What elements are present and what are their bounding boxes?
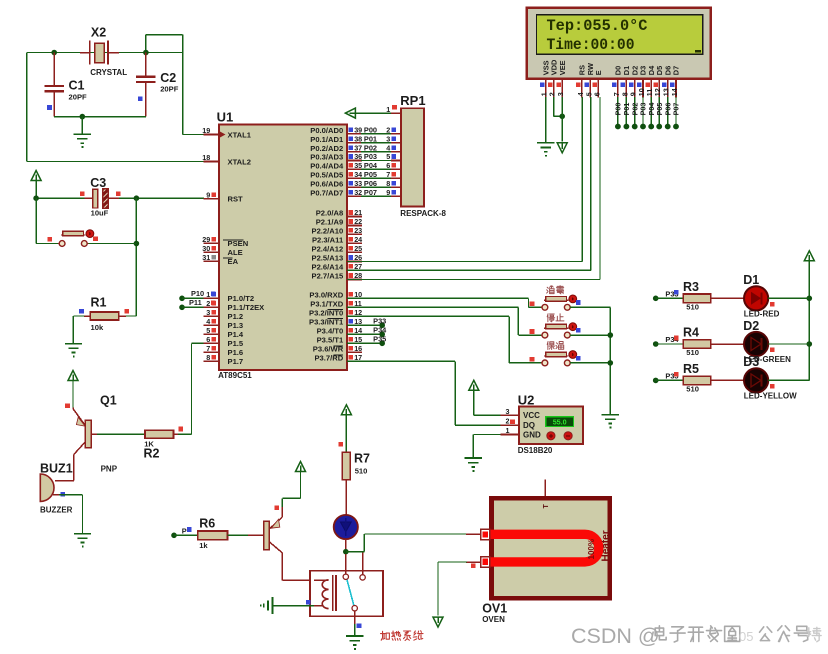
svg-text:Heater: Heater: [601, 530, 612, 561]
wire R4 to LED D2: [711, 343, 744, 345]
wire gnd stub: [81, 117, 83, 135]
oven terminal lower: [481, 557, 490, 567]
svg-text:P2.6/A14: P2.6/A14: [312, 263, 344, 272]
svg-text:D2: D2: [743, 319, 759, 333]
svg-text:31: 31: [202, 253, 210, 262]
svg-text:D7: D7: [672, 66, 681, 75]
LCD pin numbers 1-14 (rotated): [540, 88, 679, 96]
svg-text:DQ: DQ: [523, 421, 535, 430]
svg-text:LED-YELLOW: LED-YELLOW: [744, 392, 797, 401]
svg-text:GND: GND: [523, 431, 541, 440]
svg-text:25: 25: [354, 244, 362, 253]
LCD cursor: [695, 50, 701, 53]
svg-text:P06: P06: [364, 179, 377, 188]
svg-text:P: P: [182, 527, 187, 536]
relay moving contact (cyan): [347, 580, 354, 605]
svg-text:P03: P03: [364, 152, 377, 161]
svg-text:P1.4: P1.4: [228, 330, 244, 339]
relay NO contact: [362, 553, 364, 575]
svg-text:510: 510: [686, 384, 699, 393]
U2 temperature display: [546, 417, 574, 427]
svg-text:P3.1/TXD: P3.1/TXD: [310, 300, 343, 309]
svg-text:P3.5/T1: P3.5/T1: [317, 336, 344, 345]
node P33 terminal: [379, 323, 385, 329]
svg-text:P2.0/A8: P2.0/A8: [316, 209, 343, 218]
wire relay node to oven top terminal: [346, 551, 365, 553]
svg-text:BUZ1: BUZ1: [40, 462, 73, 476]
wire net P32 (U1 to button 3): [347, 315, 509, 317]
U1 pin XTAL1 clock arrow: [220, 131, 226, 138]
node LED bus D1 junction: [807, 296, 813, 302]
power arrow (RST pull-up): [31, 171, 41, 181]
transistor Q2 (relay driver): [281, 507, 283, 517]
LCD pin stubs: [546, 79, 676, 98]
wire net P30 (U1 to button 1): [347, 297, 529, 299]
svg-text:22: 22: [354, 217, 362, 226]
svg-text:24: 24: [354, 235, 362, 244]
node lamp-relay junction: [343, 549, 349, 555]
RP1 pin stubs: [391, 113, 401, 196]
svg-text:R4: R4: [683, 326, 699, 340]
RP1 side selection squares: [392, 128, 397, 195]
node P34 terminal (LED row 2): [653, 341, 659, 347]
selection square BUZ1: [61, 492, 66, 497]
node P35 terminal: [379, 341, 385, 347]
selection square R7: [339, 442, 344, 447]
selection square P11: [211, 301, 216, 306]
node RST-C3 junction: [134, 195, 140, 201]
selection square relay bottom: [357, 624, 362, 629]
wire net RST horizontal: [36, 197, 85, 199]
node P11 terminal: [179, 305, 185, 311]
selection square R2: [178, 427, 183, 432]
svg-text:RESPACK-8: RESPACK-8: [400, 209, 446, 218]
wire LED D2 to bus: [768, 343, 809, 345]
wire LCD VSS to ground: [545, 97, 547, 143]
svg-text:8: 8: [206, 353, 210, 362]
wire net P37 (U1 to U2 DQ): [347, 360, 455, 362]
svg-text:P05: P05: [364, 170, 377, 179]
selection square K3 left: [530, 357, 535, 362]
selection square reset button left: [47, 237, 52, 242]
wire reset button right to RST net: [87, 243, 136, 245]
power arrow (Q2): [296, 462, 306, 472]
relay core bars: [332, 575, 334, 611]
svg-text:RP1: RP1: [400, 93, 425, 108]
resistor R1: [119, 315, 136, 317]
wire net P34 stub at U1: [347, 333, 382, 335]
selection square P16 label: [187, 527, 192, 532]
svg-text:P1.3: P1.3: [228, 321, 244, 330]
wire buzzer bottom to ground: [53, 494, 60, 496]
selection square Q1: [65, 404, 70, 409]
svg-text:OV1: OV1: [482, 602, 507, 616]
ground (crystal caps): [74, 133, 91, 135]
svg-text:Time:00:00: Time:00:00: [547, 36, 635, 54]
svg-text:1: 1: [206, 290, 210, 299]
wire net P26 (U1 to LCD RW): [347, 269, 591, 271]
pushbutton K2 (stop): [541, 334, 542, 336]
svg-text:P1.0/T2: P1.0/T2: [228, 294, 255, 303]
svg-text:D1: D1: [743, 273, 759, 287]
node bus-K2 junction: [608, 332, 614, 338]
wire R1 to ground: [73, 315, 84, 317]
wire P16 to R6: [174, 534, 198, 536]
wire R2 to U1 P1.5: [174, 433, 181, 435]
resistor R6: [198, 531, 228, 540]
LCD screen: [537, 15, 703, 55]
wire Q2 collector to power: [300, 472, 302, 499]
label heating system (jiare xitong): [381, 631, 390, 640]
svg-text:P02: P02: [364, 143, 377, 152]
wire net XTAL1 (crystal right to U1 pin19): [146, 52, 183, 54]
wire Q1 collector to buzzer: [73, 455, 75, 481]
svg-text:20PF: 20PF: [69, 93, 88, 102]
U1 right pin stubs: [347, 134, 362, 361]
selection square LED D1: [770, 302, 775, 307]
wire P35 to resistor R5: [656, 379, 683, 381]
wire caps bottom: [54, 116, 146, 118]
oven terminal upper: [481, 529, 490, 539]
svg-text:3: 3: [506, 407, 510, 416]
svg-text:30: 30: [202, 244, 210, 253]
svg-text:P0.4/AD4: P0.4/AD4: [310, 162, 344, 171]
svg-text:C2: C2: [160, 71, 176, 85]
svg-text:510: 510: [686, 302, 699, 311]
node P34 terminal: [379, 332, 385, 338]
LCD pin names (rotated): [541, 59, 680, 75]
node crystal-right junction: [143, 50, 149, 56]
svg-text:R2: R2: [144, 446, 160, 460]
svg-text:9: 9: [206, 190, 210, 199]
LED D3: [744, 368, 768, 392]
capacitor C1: [53, 53, 55, 86]
svg-text:05: 05: [739, 629, 753, 644]
wire net P35 stub at U1: [347, 342, 382, 344]
svg-text:Tep:055.0°C: Tep:055.0°C: [547, 17, 648, 35]
wire crystal row: [54, 52, 146, 54]
wire relay bottom to ground: [354, 611, 356, 625]
selection square LED D3: [770, 384, 775, 389]
wire oven lower terminal: [466, 561, 481, 563]
wire net P25 (U1 to LCD RS): [347, 261, 582, 263]
svg-text:OVEN: OVEN: [482, 615, 505, 624]
selection square RP1 pin1: [392, 105, 397, 110]
svg-text:7: 7: [206, 344, 210, 353]
wire Q1 base to R2: [91, 433, 145, 435]
svg-text:P00: P00: [364, 126, 377, 135]
ground (buzzer): [74, 533, 91, 535]
svg-text:4: 4: [386, 143, 390, 152]
capacitor C2: [145, 53, 147, 77]
svg-text:P34: P34: [373, 326, 387, 335]
svg-text:DS18B20: DS18B20: [518, 446, 553, 455]
svg-text:VEE: VEE: [558, 60, 567, 75]
svg-text:U1: U1: [217, 110, 234, 125]
svg-text:ALE: ALE: [228, 248, 243, 257]
svg-text:P1.1/T2EX: P1.1/T2EX: [228, 303, 265, 312]
op-amp U1 body (AT89C51 microcontroller): [219, 125, 347, 371]
svg-text:AT89C51: AT89C51: [218, 371, 252, 380]
svg-text:R3: R3: [683, 280, 699, 294]
power arrow (R7): [341, 405, 351, 415]
svg-text:LED-RED: LED-RED: [744, 310, 780, 319]
resistor R7: [342, 452, 350, 479]
selection square P34 label: [674, 336, 679, 341]
selection square K3 right: [576, 356, 581, 361]
svg-text:6: 6: [386, 161, 390, 170]
svg-text:2: 2: [206, 299, 210, 308]
ground (U2): [465, 457, 482, 459]
U2 buttons (+/-): [547, 432, 555, 440]
svg-text:CRYSTAL: CRYSTAL: [90, 68, 127, 77]
svg-text:19: 19: [202, 126, 210, 135]
wire net P27 (U1 to LCD E): [347, 279, 600, 281]
selection square C2: [138, 96, 143, 101]
svg-text:R7: R7: [354, 452, 370, 466]
svg-text:20PF: 20PF: [160, 85, 179, 94]
lamp L1 (blue indicator): [334, 515, 358, 539]
svg-text:5: 5: [386, 152, 390, 161]
selection square oven: [471, 564, 476, 569]
oven OV1 body: [492, 498, 610, 598]
svg-text:29: 29: [202, 235, 210, 244]
svg-text:P2.5/A13: P2.5/A13: [312, 254, 344, 263]
pushbutton K3 (keep warm): [541, 362, 542, 364]
wire P34 to resistor R4: [656, 343, 683, 345]
power arrow (Q1 emitter): [68, 371, 78, 381]
wire buttons right bus: [570, 306, 610, 308]
ground (buttons bus): [602, 414, 619, 416]
svg-text:P2.2/A10: P2.2/A10: [312, 227, 344, 236]
svg-text:P2.3/A11: P2.3/A11: [312, 236, 344, 245]
ground (relay): [346, 635, 363, 637]
wires LCD D0-D7 to net dots: [615, 97, 679, 129]
button label: stop (tingzhi): [547, 314, 554, 322]
svg-text:P1.7: P1.7: [228, 357, 244, 366]
svg-text:P10: P10: [191, 289, 204, 298]
selection square C3 left: [80, 192, 85, 197]
svg-text:P0.7/AD7: P0.7/AD7: [310, 188, 343, 197]
wire LCD VDD jog: [553, 97, 555, 116]
wire R5 to LED D3: [711, 379, 744, 381]
svg-text:P1.6: P1.6: [228, 348, 244, 357]
resistor R5: [683, 376, 711, 385]
svg-text:P0.5/AD5: P0.5/AD5: [310, 171, 344, 180]
node crystal-left junction: [51, 50, 57, 56]
selection square P10: [211, 292, 216, 297]
svg-text:10k: 10k: [91, 323, 104, 332]
svg-text:3: 3: [386, 134, 390, 143]
svg-text:E: E: [594, 70, 603, 75]
selection square reset button right: [93, 236, 98, 241]
svg-text:R6: R6: [199, 517, 215, 531]
wire net P33 stub at U1: [347, 324, 382, 326]
svg-text:CSDN @: CSDN @: [571, 624, 660, 648]
button label: keep-warm (baowen): [547, 342, 554, 350]
svg-text:PNP: PNP: [101, 464, 118, 473]
U1 right pin names: [309, 126, 344, 363]
pushbutton reset: [58, 243, 59, 245]
svg-text:100%: 100%: [587, 539, 596, 559]
svg-text:1k: 1k: [199, 541, 208, 550]
LCD pin selection squares: [540, 83, 675, 88]
wire relay coil to side ground: [314, 605, 322, 607]
wire R3 to LED D1: [711, 297, 744, 299]
wire U2 GND: [473, 434, 500, 436]
ground (LCD VSS): [537, 142, 554, 144]
svg-text:P3.4/T0: P3.4/T0: [317, 327, 344, 336]
wire net P31 (U1 to button 2): [347, 306, 518, 308]
svg-text:P01: P01: [364, 134, 377, 143]
svg-text:XTAL1: XTAL1: [228, 130, 252, 139]
svg-text:10uF: 10uF: [91, 208, 109, 217]
svg-text:P07: P07: [672, 103, 681, 116]
selection square C3 right: [116, 192, 121, 197]
selection square K2 right: [576, 328, 581, 333]
wire R6 to Q2 base: [228, 534, 251, 536]
svg-text:P1.2: P1.2: [228, 312, 244, 321]
button label: disinfect (xiaodu): [547, 286, 555, 294]
wire LED bus vertical: [808, 261, 810, 381]
oven top stub: [544, 479, 546, 496]
svg-text:1: 1: [386, 105, 390, 114]
node RST-left junction: [33, 195, 39, 201]
wires U1 P0 to RP1: [361, 134, 392, 196]
U1 right pin numbers: [354, 126, 362, 363]
svg-text:23: 23: [354, 226, 362, 235]
crystal X2: [80, 52, 90, 54]
U1 left pin stubs: [204, 135, 220, 362]
svg-text:P07: P07: [364, 188, 377, 197]
node P33 terminal (LED row 1): [653, 296, 659, 302]
wire RST vertical to button and R1: [135, 198, 137, 316]
LCD body LCD1: [527, 8, 711, 79]
ground left-rotated (relay coil): [272, 597, 274, 614]
svg-text:P2.4/A12: P2.4/A12: [312, 245, 344, 254]
power arrow down (oven): [433, 617, 443, 627]
svg-text:VCC: VCC: [523, 411, 540, 420]
svg-text:18: 18: [202, 153, 210, 162]
ground (R1): [65, 343, 82, 345]
svg-text:P11: P11: [189, 298, 202, 307]
wire LCD VEE down: [561, 97, 563, 142]
svg-text:P04: P04: [364, 161, 378, 170]
svg-text:6: 6: [592, 92, 601, 96]
LED D1: [744, 286, 768, 310]
oven heater element: [490, 534, 599, 562]
resistor R2: [145, 430, 174, 438]
RP1 pin numbers 2-9: [386, 126, 390, 197]
svg-text:U2: U2: [518, 392, 535, 407]
svg-text:P0.6/AD6: P0.6/AD6: [310, 179, 343, 188]
svg-text:9: 9: [386, 188, 390, 197]
svg-text:510: 510: [686, 348, 699, 357]
resistor R3: [683, 294, 711, 303]
resistor R4: [683, 340, 711, 349]
svg-text:5: 5: [206, 326, 210, 335]
svg-text:4: 4: [206, 317, 210, 326]
wire power to R7: [345, 415, 347, 453]
svg-text:D3: D3: [743, 355, 759, 369]
selection square R1 right: [124, 309, 129, 314]
svg-text:55.0: 55.0: [553, 417, 567, 426]
svg-text:R1: R1: [91, 296, 107, 310]
wire net P11 stub: [182, 306, 204, 308]
node P16 terminal (R6): [171, 533, 177, 539]
selection square LED D2: [770, 348, 775, 353]
svg-text:P35: P35: [373, 335, 386, 344]
svg-text:1: 1: [506, 426, 510, 435]
power arrow (LED bus): [804, 251, 814, 261]
wire P33 to resistor R3: [656, 297, 683, 299]
net labels P00-P07 under LCD (rotated): [614, 103, 681, 116]
svg-text:X2: X2: [91, 26, 106, 40]
svg-text:P2.1/A9: P2.1/A9: [316, 218, 343, 227]
svg-text:Q1: Q1: [100, 394, 117, 408]
svg-text:21: 21: [354, 208, 362, 217]
U1 right pin selection squares: [348, 128, 353, 360]
node LED bus D2 junction: [807, 341, 813, 347]
svg-text:P33: P33: [373, 317, 386, 326]
node P10 terminal: [179, 296, 185, 302]
svg-text:P0.3/AD3: P0.3/AD3: [310, 153, 343, 162]
svg-text:RST: RST: [228, 195, 244, 204]
selection square K1 left: [530, 301, 535, 306]
selection square P35 label: [674, 372, 679, 377]
wire LED D1 to bus: [768, 297, 809, 299]
selection square relay coil: [306, 600, 311, 605]
svg-text:7: 7: [386, 170, 390, 179]
U2 pin stubs: [501, 415, 520, 434]
svg-text:P3.0/RXD: P3.0/RXD: [309, 291, 343, 300]
svg-text:8: 8: [386, 179, 390, 188]
node bus-K3 junction: [608, 360, 614, 366]
node P35 terminal (LED row 3): [653, 378, 659, 384]
net labels P00-P07: [364, 126, 378, 197]
U1 left pin names: [228, 130, 265, 366]
svg-text:6: 6: [206, 335, 210, 344]
relay common contact: [345, 554, 347, 574]
buzzer BUZ1: [40, 474, 54, 501]
node caps-gnd junction: [80, 114, 86, 120]
resistor pack RP1 body: [401, 108, 424, 206]
U1 left pin selection squares: [211, 192, 216, 359]
selection square Q2: [275, 506, 280, 511]
wire LED D3 to bus: [768, 379, 809, 381]
svg-text:T: T: [543, 504, 550, 509]
selection square R1 left: [79, 309, 84, 314]
wire net P10 stub: [182, 297, 204, 299]
svg-text:C1: C1: [69, 79, 85, 93]
svg-text:P0.2/AD2: P0.2/AD2: [310, 144, 343, 153]
svg-text:510: 510: [355, 467, 368, 476]
relay RL1 body: [310, 571, 383, 617]
svg-text:2: 2: [386, 126, 390, 135]
svg-text:R5: R5: [683, 362, 699, 376]
selection square K2 left: [530, 329, 535, 334]
wire Q2 emitter to relay coil: [281, 553, 283, 581]
relay coil: [322, 580, 328, 609]
selection square P33 label: [674, 290, 679, 295]
wire net XTAL2 (crystal left to U1 pin18): [27, 52, 54, 54]
svg-text:3: 3: [206, 308, 210, 317]
pushbutton K1 (disinfect): [541, 306, 542, 308]
svg-text:3: 3: [556, 92, 565, 96]
power arrow (RP1 pin1): [345, 108, 355, 118]
svg-text:BUZZER: BUZZER: [40, 505, 73, 514]
svg-text:P2.7/A15: P2.7/A15: [312, 272, 344, 281]
